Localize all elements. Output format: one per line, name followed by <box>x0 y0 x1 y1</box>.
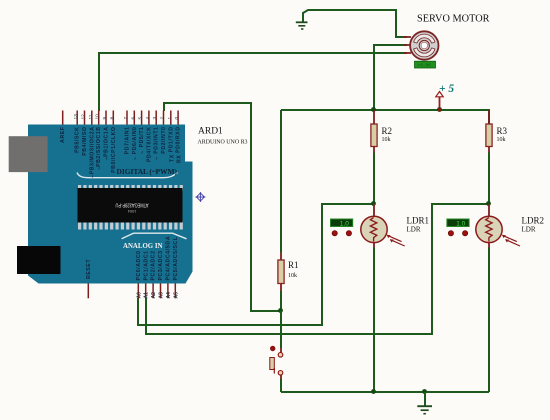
svg-text:+0.00: +0.00 <box>418 62 432 68</box>
svg-text:+ 5: + 5 <box>439 83 454 95</box>
svg-text:~: ~ <box>133 156 139 160</box>
svg-text:PC2/ADC2: PC2/ADC2 <box>151 250 157 280</box>
wire LDR2-to-rail <box>488 248 490 393</box>
node junction rail-R2 <box>371 107 376 112</box>
arduino pin labels bottom (on board) <box>86 236 179 281</box>
svg-text:PC4/ADC4/SDA: PC4/ADC4/SDA <box>166 236 172 281</box>
svg-text:11: 11 <box>88 114 94 119</box>
svg-text:PC0/ADC0: PC0/ADC0 <box>136 250 142 280</box>
usb connector <box>9 136 48 172</box>
svg-text:ATMEGA328P-PU: ATMEGA328P-PU <box>115 201 148 207</box>
svg-text:3: 3 <box>152 117 158 120</box>
wire button-to-rail <box>280 379 282 392</box>
servo motor SERVO <box>404 14 490 69</box>
power terminal +5 <box>436 83 455 110</box>
svg-text:LDR: LDR <box>522 226 536 234</box>
wire R3-to-LDR2 <box>488 153 490 205</box>
svg-text:A1: A1 <box>144 292 150 299</box>
node junction LDR1-bottom <box>371 389 376 394</box>
arduino bottom pin stubs <box>88 284 175 299</box>
svg-text:TX: TX <box>169 154 175 162</box>
svg-text:0: 0 <box>174 117 180 120</box>
svg-text:ARDUINO UNO R3: ARDUINO UNO R3 <box>198 140 248 146</box>
svg-text:12: 12 <box>81 114 87 120</box>
wire R2-to-LDR1 <box>373 153 375 205</box>
button SW1 <box>270 346 283 379</box>
chip IC <box>78 185 183 230</box>
svg-text:~: ~ <box>140 150 146 154</box>
svg-text:1.0: 1.0 <box>340 221 349 228</box>
wire ground-to-servo-pin1 <box>303 10 407 37</box>
svg-text:13: 13 <box>73 114 79 120</box>
arduino pin number labels top <box>73 114 180 120</box>
svg-text:10: 10 <box>95 114 101 120</box>
svg-text:LDR1: LDR1 <box>407 216 430 226</box>
svg-text:PB4/MISO: PB4/MISO <box>82 127 88 156</box>
LDR LDR2 <box>447 204 544 248</box>
wire junction-to-button <box>280 311 282 348</box>
svg-text:PB2/SS/OC1B: PB2/SS/OC1B <box>96 127 102 167</box>
wire pin2-to-R1-bottom <box>164 103 281 311</box>
svg-text:PC1/ADC1: PC1/ADC1 <box>143 250 149 280</box>
arduino analog pin name labels below board <box>136 292 179 299</box>
wire servo-pin3-to-pin10 <box>99 53 407 111</box>
svg-text:RX: RX <box>177 155 183 163</box>
svg-text:~: ~ <box>97 166 103 170</box>
svg-text:R1: R1 <box>288 260 299 270</box>
svg-text:A2: A2 <box>151 292 157 299</box>
svg-text:PD7/AIN1: PD7/AIN1 <box>125 127 131 155</box>
svg-text:5: 5 <box>138 117 144 120</box>
arduino top pin stubs <box>63 111 178 125</box>
svg-text:PB3/MOSI/OC2A: PB3/MOSI/OC2A <box>89 127 95 175</box>
origin marker <box>195 192 205 202</box>
arduino ARD1 <box>9 125 248 284</box>
svg-text:10k: 10k <box>497 137 506 143</box>
svg-text:7: 7 <box>123 117 129 120</box>
power jack <box>17 246 61 274</box>
svg-text:R2: R2 <box>382 126 393 136</box>
ground G1 top <box>296 22 308 29</box>
svg-text:A5: A5 <box>173 292 179 299</box>
wire A0-to-LDR1node <box>138 204 374 325</box>
svg-text:LDR: LDR <box>407 226 421 234</box>
svg-text:PC5/ADC5/SCL: PC5/ADC5/SCL <box>173 236 179 280</box>
svg-text:A4: A4 <box>166 292 172 299</box>
svg-text:PD3/INT1: PD3/INT1 <box>154 127 160 154</box>
svg-text:RESET: RESET <box>86 259 92 279</box>
node junction R1-bottom <box>278 308 283 313</box>
svg-text:2: 2 <box>160 117 166 120</box>
analog bracket <box>122 233 187 239</box>
power +5 rail wire <box>281 110 489 124</box>
svg-text:A3: A3 <box>159 292 165 299</box>
svg-text:9: 9 <box>102 117 108 120</box>
resistor R3 <box>486 110 508 153</box>
node junction ground-bottom <box>422 389 427 394</box>
board body <box>28 125 193 284</box>
LDR LDR1 <box>331 204 430 248</box>
svg-text:PC3/ADC3: PC3/ADC3 <box>158 250 164 280</box>
svg-text:AREF: AREF <box>60 127 66 143</box>
wire ground rail bottom <box>281 391 489 393</box>
svg-text:PB5/SCK: PB5/SCK <box>75 127 81 153</box>
svg-text:~: ~ <box>90 174 96 178</box>
svg-text:SERVO MOTOR: SERVO MOTOR <box>417 14 490 25</box>
svg-text:1.0: 1.0 <box>456 221 465 228</box>
wire R1-to-junction <box>280 291 282 311</box>
resistor R2 <box>371 110 392 153</box>
svg-text:8: 8 <box>109 117 115 120</box>
digital bracket <box>77 173 178 178</box>
svg-text:LDR2: LDR2 <box>522 216 545 226</box>
svg-text:PB0/ICP1/CLKO: PB0/ICP1/CLKO <box>111 127 117 173</box>
resistor R1 <box>278 253 299 292</box>
svg-text:1: 1 <box>167 117 173 120</box>
node junction LDR1-top <box>371 201 376 206</box>
wire A1-to-LDR2node <box>146 204 489 334</box>
svg-text:R3: R3 <box>497 126 508 136</box>
svg-text:PD4/T0/XCK: PD4/T0/XCK <box>146 127 152 162</box>
wire rail-to-R1 <box>280 110 282 253</box>
svg-text:PD0/RXD: PD0/RXD <box>176 127 182 153</box>
svg-text:~: ~ <box>155 156 161 160</box>
svg-text:10k: 10k <box>288 273 297 279</box>
svg-text:PD6/AIN0: PD6/AIN0 <box>132 127 138 155</box>
svg-text:ANALOG IN: ANALOG IN <box>123 241 163 250</box>
svg-text:DIGITAL (~PWM): DIGITAL (~PWM) <box>117 167 178 176</box>
svg-text:1004: 1004 <box>128 209 136 213</box>
wire LDR1-to-rail <box>373 248 375 393</box>
svg-text:PD1/TXD: PD1/TXD <box>168 127 174 153</box>
svg-text:PB1/OC1A: PB1/OC1A <box>104 127 110 157</box>
svg-text:PD2/INT0: PD2/INT0 <box>161 127 167 154</box>
node junction rail-+5 <box>437 107 442 112</box>
svg-text:PD5/T1: PD5/T1 <box>139 127 145 148</box>
wire servo-pin2-to-rail <box>374 45 407 110</box>
svg-text:4: 4 <box>145 117 151 120</box>
arduino pin labels top (on board) <box>60 127 182 179</box>
svg-text:~: ~ <box>105 156 111 160</box>
svg-text:10k: 10k <box>382 137 391 143</box>
svg-text:6: 6 <box>130 117 136 120</box>
svg-text:ARD1: ARD1 <box>198 127 223 137</box>
node junction LDR2-top <box>486 201 491 206</box>
svg-text:A0: A0 <box>136 292 142 299</box>
ground G2 bottom <box>417 392 432 414</box>
